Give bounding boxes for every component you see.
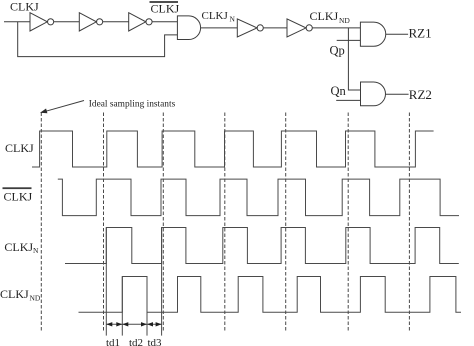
svg-text:Qp: Qp (330, 44, 345, 58)
svg-text:td2: td2 (129, 337, 143, 346)
svg-text:ND: ND (339, 16, 350, 25)
svg-text:td3: td3 (148, 337, 163, 346)
svg-text:N: N (33, 246, 39, 255)
svg-text:Ideal sampling instants: Ideal sampling instants (89, 100, 176, 110)
svg-text:CLKJ: CLKJ (310, 9, 339, 23)
svg-text:Qn: Qn (331, 84, 347, 98)
svg-text:RZ1: RZ1 (409, 25, 432, 40)
svg-text:RZ2: RZ2 (409, 87, 432, 102)
svg-text:CLKJ: CLKJ (0, 287, 29, 301)
svg-text:N: N (230, 15, 236, 24)
svg-text:CLKJ: CLKJ (4, 240, 33, 254)
svg-text:td1: td1 (106, 337, 120, 346)
svg-text:CLKJ: CLKJ (151, 2, 180, 16)
svg-text:CLKJ: CLKJ (202, 10, 229, 22)
svg-text:CLKJ: CLKJ (10, 0, 39, 14)
svg-text:ND: ND (30, 293, 41, 302)
svg-text:CLKJ: CLKJ (4, 190, 33, 204)
svg-text:CLKJ: CLKJ (5, 141, 34, 155)
